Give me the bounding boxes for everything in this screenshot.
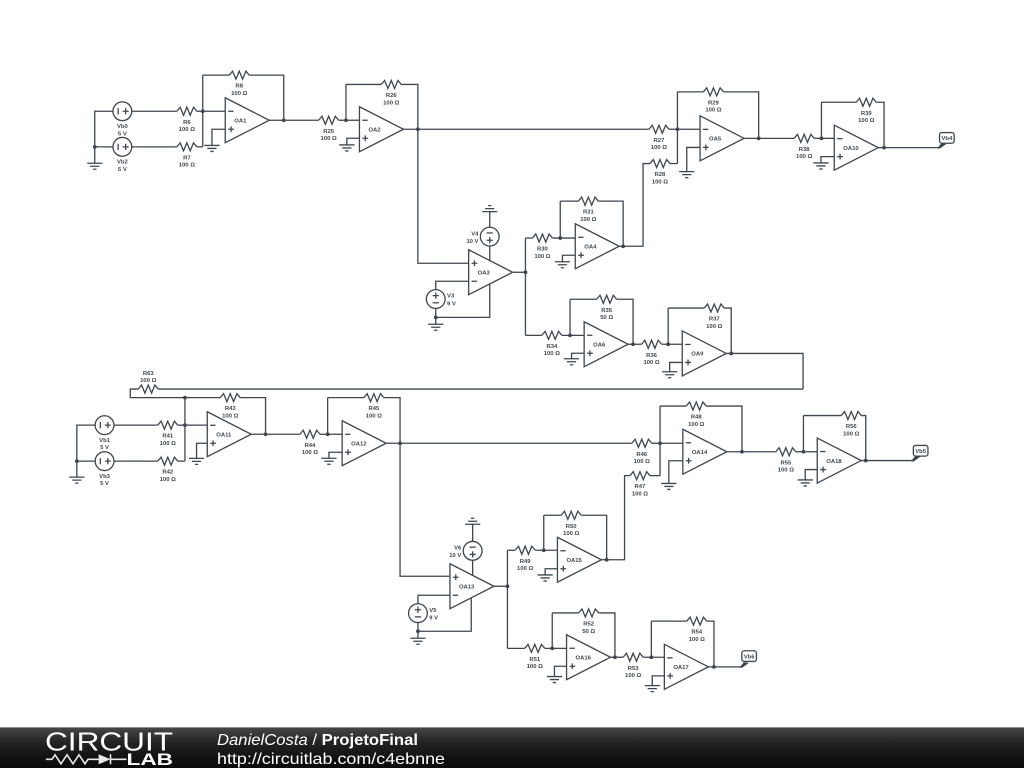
svg-text:R26: R26 [386, 93, 398, 99]
svg-text:9 V: 9 V [447, 301, 456, 307]
svg-text:R51: R51 [529, 657, 541, 663]
svg-text:100 Ω: 100 Ω [160, 477, 176, 483]
svg-text:50 Ω: 50 Ω [600, 315, 613, 321]
svg-text:V6: V6 [454, 545, 462, 551]
svg-text:Vb1: Vb1 [99, 438, 111, 444]
svg-text:R25: R25 [323, 129, 335, 135]
svg-text:100 Ω: 100 Ω [843, 431, 859, 437]
svg-text:100 Ω: 100 Ω [534, 254, 550, 260]
svg-text:R50: R50 [566, 524, 578, 530]
svg-text:R36: R36 [646, 353, 658, 359]
svg-text:5 V: 5 V [118, 167, 127, 173]
svg-text:100 Ω: 100 Ω [321, 136, 337, 142]
svg-text:100 Ω: 100 Ω [179, 127, 195, 133]
svg-text:100 Ω: 100 Ω [632, 491, 648, 497]
svg-text:OA18: OA18 [826, 459, 842, 465]
svg-text:100 Ω: 100 Ω [688, 422, 704, 428]
svg-text:100 Ω: 100 Ω [625, 673, 641, 679]
svg-text:100 Ω: 100 Ω [858, 118, 874, 124]
svg-text:R55: R55 [780, 460, 792, 466]
svg-text:OA10: OA10 [843, 146, 859, 152]
svg-text:R39: R39 [861, 111, 873, 117]
svg-text:Vb6: Vb6 [744, 654, 756, 660]
svg-text:100 Ω: 100 Ω [796, 154, 812, 160]
svg-text:R54: R54 [691, 630, 703, 636]
svg-text:100 Ω: 100 Ω [651, 145, 667, 151]
svg-text:R52: R52 [583, 621, 595, 627]
svg-text:OA4: OA4 [584, 244, 597, 250]
svg-text:LAB: LAB [127, 751, 174, 768]
svg-text:R34: R34 [546, 344, 558, 350]
svg-text:100 Ω: 100 Ω [140, 378, 156, 384]
svg-text:OA12: OA12 [351, 441, 367, 447]
svg-text:R53: R53 [628, 666, 640, 672]
svg-text:100 Ω: 100 Ω [527, 664, 543, 670]
svg-text:100 Ω: 100 Ω [652, 179, 668, 185]
svg-text:100 Ω: 100 Ω [689, 637, 705, 643]
svg-text:100 Ω: 100 Ω [705, 108, 721, 114]
svg-text:V3: V3 [447, 294, 455, 300]
svg-text:100 Ω: 100 Ω [383, 100, 399, 106]
svg-text:100 Ω: 100 Ω [179, 163, 195, 169]
svg-text:OA3: OA3 [478, 270, 491, 276]
svg-text:5 V: 5 V [100, 481, 109, 487]
svg-text:Vb0: Vb0 [117, 124, 129, 130]
svg-text:Vb4: Vb4 [941, 136, 953, 142]
svg-text:100 Ω: 100 Ω [563, 531, 579, 537]
svg-text:50 Ω: 50 Ω [582, 629, 595, 635]
svg-text:R8: R8 [235, 84, 243, 90]
svg-text:R35: R35 [601, 308, 613, 314]
svg-text:R45: R45 [368, 406, 380, 412]
svg-text:100 Ω: 100 Ω [302, 450, 318, 456]
svg-text:100 Ω: 100 Ω [634, 459, 650, 465]
svg-text:100 Ω: 100 Ω [706, 324, 722, 330]
svg-text:R37: R37 [709, 317, 721, 323]
svg-text:R48: R48 [691, 415, 703, 421]
svg-text:R44: R44 [305, 443, 317, 449]
svg-text:R49: R49 [520, 559, 532, 565]
svg-text:OA11: OA11 [216, 432, 232, 438]
svg-text:R7: R7 [183, 155, 191, 161]
svg-text:100 Ω: 100 Ω [643, 360, 659, 366]
svg-text:R27: R27 [654, 138, 666, 144]
svg-text:100 Ω: 100 Ω [231, 91, 247, 97]
svg-text:5 V: 5 V [100, 445, 109, 451]
svg-text:100 Ω: 100 Ω [778, 468, 794, 474]
svg-text:R46: R46 [636, 452, 648, 458]
svg-text:R28: R28 [655, 172, 667, 178]
svg-text:V4: V4 [471, 231, 479, 237]
svg-text:OA15: OA15 [566, 558, 582, 564]
svg-text:R47: R47 [635, 484, 647, 490]
svg-text:OA1: OA1 [234, 118, 247, 124]
svg-text:R38: R38 [799, 147, 811, 153]
svg-text:http://circuitlab.com/c4ebnne: http://circuitlab.com/c4ebnne [217, 751, 445, 768]
svg-text:100 Ω: 100 Ω [517, 566, 533, 572]
svg-text:OA14: OA14 [692, 450, 708, 456]
svg-text:OA13: OA13 [459, 584, 475, 590]
svg-text:OA9: OA9 [691, 352, 704, 358]
svg-text:R31: R31 [583, 210, 595, 216]
svg-text:R43: R43 [225, 406, 237, 412]
svg-text:Vb3: Vb3 [99, 474, 111, 480]
svg-text:R56: R56 [846, 424, 858, 430]
svg-text:R63: R63 [143, 371, 155, 377]
svg-text:10 V: 10 V [449, 553, 461, 559]
svg-text:R6: R6 [183, 120, 191, 126]
svg-text:OA16: OA16 [576, 655, 592, 661]
svg-text:100 Ω: 100 Ω [580, 217, 596, 223]
svg-text:100 Ω: 100 Ω [160, 441, 176, 447]
svg-text:V5: V5 [429, 608, 437, 614]
svg-text:OA2: OA2 [368, 127, 381, 133]
svg-text:OA6: OA6 [593, 342, 606, 348]
svg-text:OA17: OA17 [673, 665, 689, 671]
svg-text:OA5: OA5 [709, 137, 722, 143]
svg-text:Vb2: Vb2 [117, 159, 129, 165]
svg-text:10 V: 10 V [466, 239, 478, 245]
svg-text:5 V: 5 V [118, 131, 127, 137]
svg-text:DanielCosta / ProjetoFinal: DanielCosta / ProjetoFinal [217, 732, 418, 749]
svg-text:R42: R42 [162, 470, 174, 476]
svg-text:9 V: 9 V [429, 615, 438, 621]
svg-text:R30: R30 [537, 247, 549, 253]
svg-text:Vb5: Vb5 [915, 449, 927, 455]
svg-text:R41: R41 [162, 434, 174, 440]
svg-text:100 Ω: 100 Ω [366, 413, 382, 419]
svg-text:R29: R29 [708, 100, 720, 106]
svg-text:100 Ω: 100 Ω [222, 413, 238, 419]
svg-text:100 Ω: 100 Ω [544, 351, 560, 357]
